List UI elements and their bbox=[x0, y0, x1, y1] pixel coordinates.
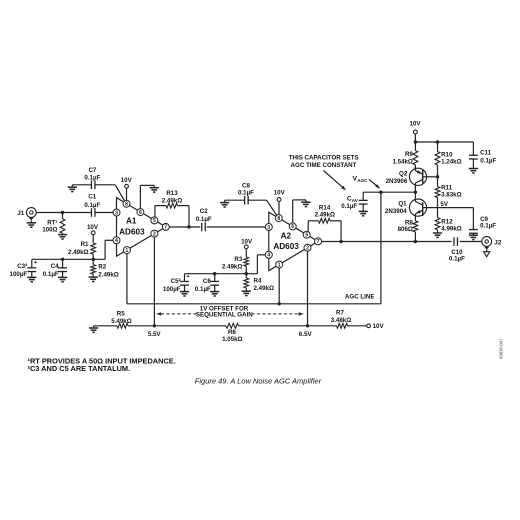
wire 10V rail bbox=[415, 141, 473, 143]
node R3 R4 junction bbox=[245, 272, 248, 275]
svg-text:2.49kΩ: 2.49kΩ bbox=[98, 272, 118, 279]
wire A2 output bbox=[322, 241, 452, 243]
ground C11 bbox=[472, 167, 474, 170]
svg-text:10V: 10V bbox=[121, 177, 133, 184]
svg-text:R1: R1 bbox=[81, 241, 89, 248]
capacitor C5 bbox=[184, 274, 186, 282]
svg-text:2N3904: 2N3904 bbox=[385, 208, 407, 215]
svg-text:Q2: Q2 bbox=[399, 171, 408, 178]
svg-text:0.1µF: 0.1µF bbox=[238, 190, 254, 197]
node 5.5V junction bbox=[153, 324, 156, 327]
A1 pin 1 bbox=[123, 247, 130, 254]
op-amp A1 AD603 bbox=[117, 198, 166, 257]
svg-text:C8: C8 bbox=[242, 182, 250, 189]
svg-text:C6: C6 bbox=[203, 278, 211, 285]
svg-text:10V: 10V bbox=[241, 238, 253, 245]
svg-text:C4: C4 bbox=[51, 263, 59, 270]
capacitor C10 bbox=[453, 237, 455, 246]
svg-text:3: 3 bbox=[267, 225, 270, 231]
svg-text:²C3 AND C5 ARE TANTALUM.: ²C3 AND C5 ARE TANTALUM. bbox=[28, 364, 131, 373]
svg-text:10V: 10V bbox=[274, 190, 286, 197]
A1 pin 8 bbox=[123, 200, 130, 207]
svg-text:7: 7 bbox=[317, 239, 320, 245]
svg-text:AGC TIME CONSTANT: AGC TIME CONSTANT bbox=[291, 162, 357, 169]
resistor R8 bbox=[414, 216, 416, 221]
svg-text:SEQUENTIAL GAIN: SEQUENTIAL GAIN bbox=[196, 312, 253, 319]
svg-text:R2: R2 bbox=[98, 264, 106, 271]
svg-text:5: 5 bbox=[153, 218, 156, 224]
svg-text:R14: R14 bbox=[319, 205, 331, 212]
wire VAGC line bbox=[363, 191, 415, 193]
A2 pin 7 bbox=[315, 238, 322, 245]
resistor R3 bbox=[245, 249, 247, 257]
ground A1 pin6 bbox=[153, 185, 155, 187]
node A2 pin1 AGC junction bbox=[278, 302, 281, 305]
svg-text:8: 8 bbox=[125, 202, 128, 208]
svg-text:R7: R7 bbox=[336, 310, 344, 317]
svg-text:AD603: AD603 bbox=[273, 242, 299, 251]
svg-text:1: 1 bbox=[126, 248, 129, 254]
svg-text:0.1µF: 0.1µF bbox=[84, 202, 100, 209]
capacitor C4 bbox=[62, 259, 64, 268]
svg-text:4: 4 bbox=[267, 253, 270, 259]
resistor R12 bbox=[437, 208, 439, 218]
svg-text:0.1µF: 0.1µF bbox=[480, 223, 496, 230]
svg-text:AGC: AGC bbox=[357, 178, 368, 183]
node 10V R9 junction bbox=[414, 140, 417, 143]
svg-text:RT¹: RT¹ bbox=[47, 220, 57, 227]
node VAGC junction bbox=[379, 191, 382, 194]
svg-text:C7: C7 bbox=[88, 167, 96, 174]
ground C4 bbox=[62, 276, 64, 279]
svg-text:10V: 10V bbox=[87, 224, 99, 231]
svg-text:R6: R6 bbox=[228, 329, 236, 336]
op-amp A2 AD603 bbox=[269, 212, 318, 271]
A1 pin 6 bbox=[137, 209, 144, 216]
svg-text:1.05kΩ: 1.05kΩ bbox=[222, 336, 242, 343]
resistor R6 bbox=[226, 323, 239, 328]
svg-text:8: 8 bbox=[277, 216, 280, 222]
svg-text:3: 3 bbox=[115, 210, 118, 216]
node input junction bbox=[61, 211, 64, 214]
ground R2 bbox=[92, 274, 94, 277]
svg-text:100Ω: 100Ω bbox=[42, 227, 57, 234]
svg-text:R11: R11 bbox=[441, 184, 453, 191]
node R1 R2 junction bbox=[92, 258, 95, 261]
node R14 output junction bbox=[339, 240, 342, 243]
svg-text:6.5V: 6.5V bbox=[299, 331, 313, 338]
svg-text:THIS CAPACITOR SETS: THIS CAPACITOR SETS bbox=[289, 155, 359, 162]
resistor R7 bbox=[337, 323, 348, 328]
A1 pin 4 bbox=[113, 237, 120, 244]
ground C9 bbox=[472, 234, 474, 237]
J2 shield ground bbox=[484, 247, 489, 250]
capacitor C7 bbox=[72, 184, 91, 186]
svg-text:C11: C11 bbox=[480, 150, 492, 157]
svg-text:1.54kΩ: 1.54kΩ bbox=[392, 158, 412, 165]
A2 pin 2 bbox=[304, 244, 311, 251]
svg-text:6: 6 bbox=[139, 210, 142, 216]
svg-text:+: + bbox=[34, 260, 38, 266]
A1 pin 2 bbox=[151, 230, 158, 237]
transistor Q2 2N3906 bbox=[409, 168, 426, 185]
svg-text:A1: A1 bbox=[126, 217, 137, 226]
resistor R1 bbox=[92, 235, 94, 243]
svg-text:7: 7 bbox=[164, 225, 167, 231]
svg-text:R4: R4 bbox=[254, 277, 262, 284]
svg-text:Q1: Q1 bbox=[398, 201, 407, 208]
supply 10V bottom bbox=[367, 324, 371, 328]
arrow VAGC bbox=[369, 179, 378, 186]
A2 pin 3 bbox=[265, 224, 272, 231]
resistor R5 bbox=[117, 323, 128, 328]
wire A1 pin6 to ground bbox=[139, 185, 141, 208]
wire A2 pin2 drop bbox=[307, 251, 309, 325]
transistor Q1 2N3904 bbox=[414, 192, 416, 199]
svg-text:1: 1 bbox=[278, 262, 281, 268]
wire input line bbox=[36, 212, 91, 214]
node Q2 base junction bbox=[436, 175, 439, 178]
wire Q2 base bbox=[423, 176, 438, 178]
capacitor C11 bbox=[472, 142, 474, 155]
A1 pin 7 bbox=[162, 223, 169, 230]
svg-text:C3²: C3² bbox=[17, 263, 27, 270]
svg-text:A2: A2 bbox=[281, 231, 292, 240]
ground C5 bbox=[184, 290, 186, 293]
wire bottom rail bbox=[94, 325, 117, 327]
svg-text:5V: 5V bbox=[440, 201, 448, 208]
node R13 output junction bbox=[187, 225, 190, 228]
node C4 tap bbox=[61, 258, 64, 261]
ground C8 bbox=[224, 200, 226, 202]
wire Q2 collector bbox=[414, 185, 416, 192]
ground R12 bbox=[437, 230, 439, 233]
svg-text:C2: C2 bbox=[200, 208, 208, 215]
wire A2 pin6 to ground bbox=[292, 200, 294, 223]
svg-text:0.1µF: 0.1µF bbox=[43, 271, 59, 278]
svg-text:R9: R9 bbox=[405, 151, 413, 158]
node VAGC transistor junction bbox=[414, 191, 417, 194]
svg-text:0.1µF: 0.1µF bbox=[196, 216, 212, 223]
capacitor C1 bbox=[90, 208, 92, 217]
ground R4 bbox=[245, 288, 247, 291]
ground C7 bbox=[71, 185, 73, 187]
A2 pin 4 bbox=[265, 251, 272, 258]
svg-text:2.49kΩ: 2.49kΩ bbox=[68, 249, 88, 256]
node 6.5V junction bbox=[306, 324, 309, 327]
resistor R9 bbox=[414, 142, 416, 151]
svg-text:03036-047: 03036-047 bbox=[499, 338, 504, 359]
svg-text:0.1µF: 0.1µF bbox=[480, 157, 496, 164]
wire A1 pin2 drop bbox=[153, 237, 155, 326]
J2 output connector bbox=[482, 237, 492, 247]
svg-text:10V: 10V bbox=[409, 121, 421, 128]
svg-text:4.99kΩ: 4.99kΩ bbox=[441, 225, 461, 232]
A2 pin 6 bbox=[289, 223, 296, 230]
capacitor C2 bbox=[201, 223, 203, 232]
A1 pin 3 bbox=[113, 209, 120, 216]
resistor R13 feedback bbox=[154, 206, 156, 217]
svg-text:R5: R5 bbox=[117, 310, 125, 317]
arrow 1V offset left bbox=[156, 312, 161, 315]
ground CAV bbox=[362, 210, 364, 213]
svg-text:J2: J2 bbox=[494, 239, 502, 246]
capacitor CAV bbox=[362, 192, 364, 200]
svg-text:2.49kΩ: 2.49kΩ bbox=[254, 285, 274, 292]
svg-text:100µF: 100µF bbox=[163, 286, 181, 293]
arrow 1V offset right bbox=[252, 313, 300, 315]
A2 pin 1 bbox=[276, 261, 283, 268]
resistor R10 bbox=[437, 142, 439, 152]
svg-text:AD603: AD603 bbox=[119, 227, 145, 236]
capacitor C3 bbox=[31, 259, 33, 268]
svg-text:2.49kΩ: 2.49kΩ bbox=[222, 263, 242, 270]
wire A2 pin1 drop bbox=[278, 268, 280, 304]
svg-text:0.1µF: 0.1µF bbox=[84, 174, 100, 181]
svg-text:2: 2 bbox=[153, 231, 156, 237]
svg-text:6: 6 bbox=[291, 224, 294, 230]
svg-text:R13: R13 bbox=[166, 190, 178, 197]
ground C6 bbox=[214, 290, 216, 293]
svg-text:2.49kΩ: 2.49kΩ bbox=[315, 212, 335, 219]
wire A1 pin1 drop bbox=[126, 254, 128, 304]
J1 input connector bbox=[26, 208, 36, 218]
svg-text:R12: R12 bbox=[441, 218, 453, 225]
wire A1 pin4 net bbox=[105, 239, 113, 241]
capacitor C9 bbox=[472, 208, 474, 230]
svg-text:3.83kΩ: 3.83kΩ bbox=[441, 192, 461, 199]
J1 shield ground bbox=[29, 218, 34, 221]
wire AGC line bbox=[127, 303, 381, 305]
svg-text:C5²: C5² bbox=[171, 278, 181, 285]
svg-text:R3: R3 bbox=[234, 256, 242, 263]
svg-text:5: 5 bbox=[305, 233, 308, 239]
A2 pin 8 bbox=[275, 215, 282, 222]
svg-text:AGC LINE: AGC LINE bbox=[345, 294, 375, 301]
capacitor C6 bbox=[214, 274, 216, 282]
node R8 output junction bbox=[414, 240, 417, 243]
svg-text:4: 4 bbox=[115, 238, 118, 244]
svg-text:806Ω: 806Ω bbox=[398, 226, 413, 233]
capacitor C8 bbox=[225, 199, 245, 201]
resistor R11 bbox=[437, 177, 439, 187]
svg-text:2.49kΩ: 2.49kΩ bbox=[162, 197, 182, 204]
svg-text:J1: J1 bbox=[17, 210, 25, 217]
svg-text:2N3906: 2N3906 bbox=[386, 178, 408, 185]
svg-text:C1: C1 bbox=[88, 194, 96, 201]
svg-text:0.1µF: 0.1µF bbox=[195, 286, 211, 293]
A2 pin 5 bbox=[303, 231, 310, 238]
ground R5 rail bbox=[93, 326, 95, 328]
node C6 tap bbox=[213, 272, 216, 275]
svg-text:0.1µF: 0.1µF bbox=[341, 203, 357, 210]
resistor R14 feedback bbox=[307, 221, 309, 231]
wire Q1 base 5V line bbox=[423, 207, 474, 209]
resistor R2 bbox=[92, 259, 94, 264]
svg-text:R10: R10 bbox=[441, 151, 453, 158]
wire A1 output bbox=[169, 226, 200, 228]
svg-text:0.1µF: 0.1µF bbox=[449, 256, 465, 263]
svg-text:2: 2 bbox=[306, 246, 309, 252]
resistor RT1 bbox=[62, 213, 64, 219]
svg-text:Figure 49. A Low Noise AGC Amp: Figure 49. A Low Noise AGC Amplifier bbox=[195, 377, 322, 386]
svg-text:5.5V: 5.5V bbox=[148, 331, 162, 338]
ground A2 pin6 bbox=[305, 200, 307, 202]
svg-text:5.49kΩ: 5.49kΩ bbox=[111, 318, 131, 325]
svg-text:100µF: 100µF bbox=[10, 271, 28, 278]
ground C3 bbox=[31, 276, 33, 279]
node 10V R10 junction bbox=[436, 140, 439, 143]
resistor R4 bbox=[245, 274, 247, 278]
A1 pin 5 bbox=[151, 217, 158, 224]
wire A2 pin4 net bbox=[257, 254, 265, 256]
svg-text:3.48kΩ: 3.48kΩ bbox=[331, 317, 351, 324]
svg-text:1.24kΩ: 1.24kΩ bbox=[441, 159, 461, 166]
arrow to CAV bbox=[324, 171, 344, 189]
svg-text:10V: 10V bbox=[373, 323, 385, 330]
